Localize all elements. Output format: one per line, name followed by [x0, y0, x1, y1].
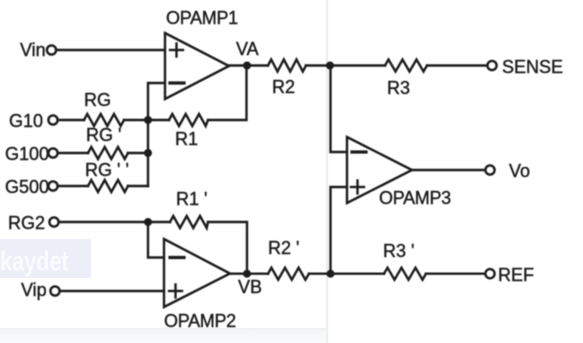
- terminal Vin: [47, 45, 56, 54]
- label Vo: [509, 161, 530, 181]
- wire node E to R1': [148, 221, 170, 223]
- op-amp U3 OPAMP3 triangle: [347, 137, 412, 203]
- wire node D to R3': [331, 273, 385, 275]
- wire G10 to RG: [59, 119, 84, 121]
- wire node E to OPAMP2 minus input: [148, 222, 164, 258]
- label RG2: [8, 213, 45, 233]
- resistor R2': [268, 268, 309, 280]
- node C junction dot: [326, 62, 334, 70]
- wire node C to R3: [330, 64, 385, 66]
- node E junction dot: [144, 218, 152, 226]
- svg-text:Vin: Vin: [20, 40, 46, 60]
- svg-text:R2: R2: [272, 77, 295, 97]
- net label VA: [236, 39, 259, 59]
- label SENSE: [502, 57, 563, 77]
- resistor R2: [268, 60, 306, 72]
- op-amp U2 plus pin symbol: [169, 285, 182, 298]
- wire OPAMP1 output to VA: [229, 64, 247, 66]
- label Vin: [20, 40, 46, 60]
- kaydet overlay: [0, 239, 91, 278]
- op-amp U1 plus pin symbol: [170, 44, 183, 57]
- wire node C to OPAMP3 minus input: [331, 66, 348, 153]
- resistor R3': [384, 268, 426, 280]
- value label R2: [272, 77, 295, 97]
- wire R2 to node C: [306, 64, 330, 66]
- resistor R1': [170, 216, 208, 228]
- value label R3': [383, 241, 414, 261]
- svg-text:Vo: Vo: [509, 161, 530, 181]
- wire R2' to node D: [309, 273, 331, 275]
- wire gain bus vertical: [147, 120, 149, 186]
- wire OPAMP2 output to VB: [230, 273, 247, 275]
- svg-text:R3: R3: [387, 78, 410, 98]
- wire OPAMP3 plus input to node D: [331, 187, 348, 274]
- terminal SENSE: [487, 61, 496, 70]
- terminal G10: [48, 115, 57, 124]
- svg-text:G10: G10: [9, 111, 43, 131]
- op-amp U1 OPAMP1 triangle: [165, 33, 229, 99]
- wire RG'' to gain bus: [128, 185, 148, 187]
- node D junction dot: [327, 270, 335, 278]
- label Vip: [21, 280, 47, 300]
- svg-text:VA: VA: [236, 39, 259, 59]
- resistor R3: [385, 60, 427, 72]
- op-amp U3 minus pin symbol: [352, 150, 366, 153]
- op-amp U3 plus pin symbol: [351, 181, 364, 194]
- label OPAMP1: [166, 8, 238, 28]
- op-amp U1 minus pin symbol: [170, 81, 184, 84]
- resistor RG'': [88, 180, 128, 192]
- wire VB to R2': [247, 273, 268, 275]
- bottom strip: [0, 328, 326, 343]
- svg-text:R3 ': R3 ': [383, 241, 414, 261]
- wire R3' to REF: [426, 273, 485, 275]
- column edge line: [326, 0, 328, 343]
- value label R1': [176, 189, 207, 209]
- value label RG': [86, 125, 121, 145]
- wire RG2 to node E: [60, 221, 148, 223]
- terminal Vo: [485, 165, 494, 174]
- resistor RG': [88, 147, 128, 159]
- svg-text:R1 ': R1 ': [176, 189, 207, 209]
- op-amp U2 minus pin symbol: [170, 256, 184, 259]
- wire R1 to VA riser: [208, 66, 247, 120]
- label REF: [498, 265, 534, 285]
- terminal Vip: [50, 286, 59, 295]
- wire VA to R2: [247, 64, 268, 66]
- net label VB: [238, 277, 262, 297]
- op-amp U2 OPAMP2 triangle: [164, 239, 230, 307]
- svg-text:SENSE: SENSE: [502, 57, 563, 77]
- svg-text:RG: RG: [84, 90, 111, 110]
- value label R3: [387, 78, 410, 98]
- svg-text:R1: R1: [175, 129, 198, 149]
- node VB junction dot: [243, 270, 251, 278]
- wire Vip to OPAMP2 plus input: [61, 290, 164, 292]
- label G10: [9, 111, 43, 131]
- node VA junction dot: [243, 62, 251, 70]
- node B junction dot: [144, 149, 152, 157]
- wire G500 to RG'': [59, 185, 88, 187]
- label OPAMP2: [164, 311, 236, 331]
- svg-text:OPAMP3: OPAMP3: [379, 188, 451, 208]
- wire RG' to node B: [128, 152, 148, 154]
- label OPAMP3: [379, 188, 451, 208]
- svg-text:VB: VB: [238, 277, 262, 297]
- wire node A to R1: [148, 119, 169, 121]
- wire RG to node A: [124, 119, 148, 121]
- value label R2': [268, 238, 299, 258]
- svg-text:OPAMP1: OPAMP1: [166, 8, 238, 28]
- label G100: [5, 144, 49, 164]
- value label RG'': [85, 160, 129, 180]
- terminal REF: [485, 269, 494, 278]
- value label RG: [84, 90, 111, 110]
- svg-text:G500: G500: [5, 177, 49, 197]
- wire R1' to VB riser: [208, 222, 247, 274]
- wire R3 to SENSE: [427, 64, 487, 66]
- svg-text:R2 ': R2 ': [268, 238, 299, 258]
- resistor R1: [169, 114, 208, 126]
- node A junction dot: [144, 116, 152, 124]
- terminal G500: [48, 181, 57, 190]
- svg-text:RG ' ': RG ' ': [85, 160, 129, 180]
- svg-text:RG ': RG ': [86, 125, 121, 145]
- svg-text:RG2: RG2: [8, 213, 45, 233]
- resistor RG: [84, 114, 124, 126]
- label G500: [5, 177, 49, 197]
- wire Vin to OPAMP1 plus input: [57, 49, 165, 51]
- wire OPAMP1 minus input loop: [148, 83, 165, 120]
- wire G100 to RG': [59, 152, 88, 154]
- wire OPAMP3 output to Vo: [412, 169, 485, 171]
- value label R1: [175, 129, 198, 149]
- svg-text:G100: G100: [5, 144, 49, 164]
- svg-text:Vip: Vip: [21, 280, 47, 300]
- terminal RG2: [49, 217, 58, 226]
- terminal G100: [48, 148, 57, 157]
- svg-text:REF: REF: [498, 265, 534, 285]
